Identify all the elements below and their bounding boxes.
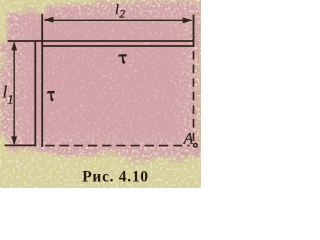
page background bbox=[0, 0, 201, 188]
svg-text:A: A bbox=[183, 130, 194, 147]
arrowhead l2 right bbox=[183, 17, 193, 23]
svg-text:Рис. 4.10: Рис. 4.10 bbox=[82, 168, 148, 185]
ragged boundary blobs bbox=[0, 0, 201, 157]
arrowhead l1 bottom bbox=[11, 136, 17, 145]
label tau (top rod) bbox=[118, 54, 127, 63]
dimension line l2 bbox=[45, 19, 191, 21]
wire: dashed vertical through A bbox=[193, 51, 195, 141]
wire: left rod right line / l2 left extension bbox=[41, 14, 43, 147]
dimension line l1 bbox=[13, 43, 15, 144]
node A circle bbox=[194, 144, 198, 148]
pink scanned figure area bbox=[0, 0, 201, 158]
khaki streak right edge bbox=[196, 55, 201, 145]
wire: dashed horizontal through A bbox=[45, 145, 189, 147]
wire: left rod left line bbox=[34, 41, 36, 146]
arrowhead l1 top bbox=[11, 41, 17, 50]
wire: l1 bottom extension line bbox=[5, 144, 35, 146]
wire: right extension solid part bbox=[193, 15, 195, 48]
noise speckles bbox=[0, 0, 201, 188]
arrowhead l2 left bbox=[44, 17, 54, 23]
wire: top rod upper line bbox=[8, 40, 194, 42]
label tau (left rod) bbox=[47, 91, 55, 101]
wire: top rod lower line bbox=[43, 45, 194, 47]
